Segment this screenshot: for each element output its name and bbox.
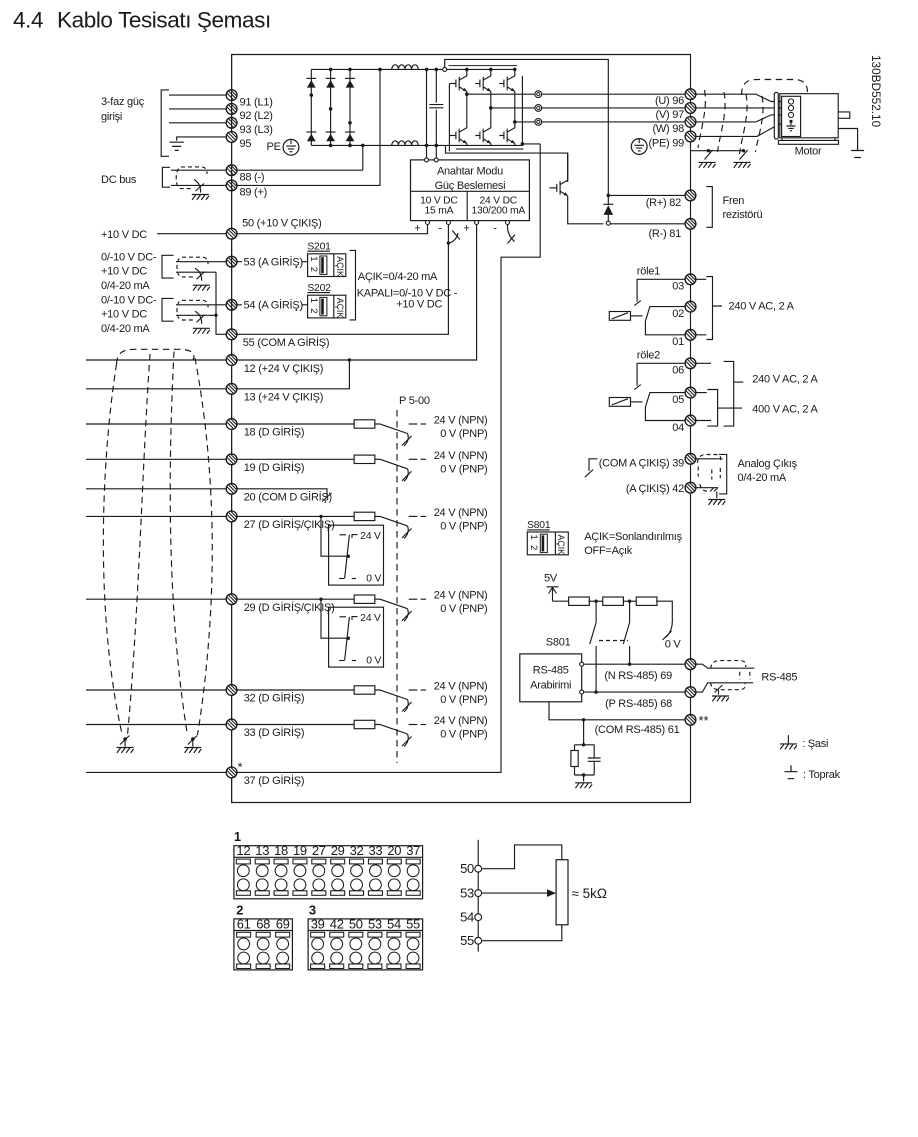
terminal 50 [226, 228, 237, 239]
shield analog input 53 [177, 257, 200, 277]
svg-text:: Şasi: : Şasi [802, 738, 828, 750]
RS-485 cable shield [711, 661, 746, 669]
terminal 92 [226, 104, 237, 115]
bracket DC bus [162, 167, 170, 187]
wire DC+ to terminal 89 [237, 69, 380, 185]
svg-text:53: 53 [460, 886, 474, 901]
svg-text:AÇIK: AÇIK [335, 256, 345, 277]
svg-text:1: 1 [234, 829, 241, 844]
svg-text:18: 18 [274, 843, 288, 858]
resistor input 33 [354, 720, 375, 728]
svg-text:50: 50 [460, 861, 474, 876]
potentiometer wiring sketch [477, 840, 479, 952]
wire P RS-485 68 [584, 691, 686, 693]
wire SMPS 10V- to 55 [237, 225, 449, 335]
svg-text:89 (+): 89 (+) [240, 187, 268, 199]
wire 50 left [157, 233, 226, 235]
terminal 39 [685, 453, 696, 464]
svg-text:3: 3 [309, 902, 316, 917]
shield drain DC bus [194, 180, 201, 193]
SMPS Anahtar Modu Guc Beslemesi [411, 160, 530, 221]
svg-text:0/4-20 mA: 0/4-20 mA [738, 472, 787, 484]
motor [774, 92, 778, 139]
svg-text:05: 05 [672, 394, 684, 406]
output connector phase 3 [515, 121, 535, 123]
svg-text:2: 2 [236, 902, 243, 917]
resistor input 29 [354, 595, 375, 603]
terminal 99 [685, 131, 696, 142]
terminal 93 [226, 117, 237, 128]
svg-text:0 V (PNP): 0 V (PNP) [440, 520, 487, 532]
shield drain 54 [195, 311, 202, 324]
pot node 53 [475, 890, 482, 897]
chassis ground motor cable 1 [699, 162, 716, 167]
svg-text:(R-) 81: (R-) 81 [649, 228, 682, 240]
inductor DC+ [350, 68, 392, 70]
svg-text:Kablo Tesisatı Şeması: Kablo Tesisatı Şeması [57, 8, 271, 33]
svg-text:54: 54 [387, 916, 401, 931]
svg-text:2: 2 [308, 308, 319, 313]
shield DC bus cable [176, 167, 199, 189]
relay coil röle2 [609, 398, 630, 407]
output connector phase 2 [491, 107, 535, 109]
terminal 32 [226, 685, 237, 696]
bracket 3-phase input [161, 90, 169, 156]
relay coil röle1 [609, 312, 630, 321]
svg-text:rezistörü: rezistörü [723, 209, 763, 221]
wire COM RS-485 61 [549, 702, 685, 720]
analog out wires [696, 458, 723, 460]
switch NPN/PNP 33 [375, 725, 408, 735]
svg-text:37 (D GİRİŞ): 37 (D GİRİŞ) [244, 774, 305, 787]
svg-text:0/4-20 mA: 0/4-20 mA [101, 323, 150, 335]
wire 19 to resistor [237, 458, 354, 460]
svg-text:(U) 96: (U) 96 [655, 95, 684, 107]
bundle shield drains [123, 737, 127, 741]
svg-text:P 5-00: P 5-00 [399, 395, 430, 407]
wire N RS-485 69 [584, 663, 686, 665]
resistor input 19 [354, 455, 375, 463]
wire 33 left [86, 724, 226, 726]
wire 12 left [86, 359, 226, 361]
halo labels 53/54 [242, 255, 303, 269]
wire 54 pair bottom [176, 314, 216, 316]
chassis ground DC bus shield [192, 195, 209, 200]
switch 0V [666, 619, 673, 638]
svg-text:(P RS-485) 68: (P RS-485) 68 [605, 698, 672, 710]
svg-text:55: 55 [406, 916, 420, 931]
motor wire W [696, 115, 787, 122]
terminator resistor 1 [553, 600, 570, 602]
chassis ground analog out [708, 500, 725, 505]
svg-text:S801: S801 [546, 636, 571, 648]
wire 29 left [86, 598, 226, 600]
svg-text:39: 39 [311, 916, 325, 931]
wire 32 to resistor [237, 689, 354, 691]
svg-text:24 V (NPN): 24 V (NPN) [434, 590, 488, 602]
bracket analog input 53 [162, 255, 174, 278]
hook COM A CIKIS [589, 459, 598, 471]
svg-text:KAPALI=0/-10 V DC -: KAPALI=0/-10 V DC - [357, 287, 458, 299]
IGBT module bus bars [449, 65, 518, 67]
svg-text:0 V (PNP): 0 V (PNP) [440, 603, 487, 615]
wire 18 left [86, 423, 226, 425]
svg-text:0 V (PNP): 0 V (PNP) [440, 428, 487, 440]
svg-text:(PE) 99: (PE) 99 [648, 138, 684, 150]
svg-text:0 V (PNP): 0 V (PNP) [440, 729, 487, 741]
shield drain 53 [195, 268, 202, 281]
svg-text:DC bus: DC bus [101, 174, 137, 186]
shield analog input 54 [177, 300, 200, 320]
svg-text:1: 1 [528, 535, 539, 540]
svg-text:18 (D GİRİŞ): 18 (D GİRİŞ) [244, 426, 305, 439]
svg-text:24 V (NPN): 24 V (NPN) [434, 415, 488, 427]
svg-text:0/4-20 mA: 0/4-20 mA [101, 280, 150, 292]
motor cable shield dome [742, 80, 808, 96]
svg-text:20 (COM D GİRİŞ): 20 (COM D GİRİŞ) [244, 491, 332, 504]
svg-text:32: 32 [350, 843, 364, 858]
svg-text:(V) 97: (V) 97 [656, 109, 685, 121]
svg-text:24 V (NPN): 24 V (NPN) [434, 681, 488, 693]
terminal 42 [685, 482, 696, 493]
terminal 68 [685, 687, 696, 698]
rectifier leg 3 [349, 69, 351, 145]
wire 95 to earth [177, 137, 227, 141]
drive enclosure box [232, 55, 691, 803]
terminator resistor 3 [623, 600, 638, 602]
terminal 13 [226, 383, 237, 394]
digital io select box at 516.4 [319, 515, 322, 518]
PE shield bus [691, 150, 744, 152]
svg-text:15 mA: 15 mA [425, 206, 454, 217]
RS-485 cable wires [696, 664, 755, 668]
terminal 89 [226, 180, 237, 191]
terminal 88 [226, 165, 237, 176]
terminal 91 [226, 90, 237, 101]
wire 19 left [86, 458, 226, 460]
svg-text:0 V: 0 V [366, 574, 381, 585]
RS-485 shield drain [718, 690, 720, 695]
wire 33 to resistor [237, 724, 354, 726]
svg-text:+: + [463, 223, 469, 235]
svg-text:53 (A GİRİŞ): 53 (A GİRİŞ) [244, 256, 303, 269]
svg-text:42: 42 [330, 916, 344, 931]
terminal 37 [226, 767, 237, 778]
svg-text:01: 01 [672, 336, 684, 348]
shielded control cable bundle [117, 349, 194, 364]
switch NPN/PNP 19 [375, 459, 408, 469]
pot wire 55 [482, 925, 562, 941]
svg-text:24 V: 24 V [360, 613, 381, 624]
DC link capacitor [427, 69, 437, 157]
svg-text:24 V: 24 V [360, 531, 381, 542]
svg-text:55 (COM A GİRİŞ): 55 (COM A GİRİŞ) [243, 336, 329, 349]
svg-text:0/-10 V DC-: 0/-10 V DC- [101, 294, 157, 306]
svg-text:0 V: 0 V [366, 656, 381, 667]
IGBT module right bracket [521, 76, 523, 144]
svg-text:92 (L2): 92 (L2) [240, 110, 273, 122]
svg-text:24 V (NPN): 24 V (NPN) [434, 507, 488, 519]
svg-text:Fren: Fren [723, 195, 745, 207]
svg-text:Anahtar Modu: Anahtar Modu [437, 166, 503, 178]
terminal 54 [226, 299, 237, 310]
terminal column segment 53-55 [231, 256, 233, 803]
terminal 95 [226, 132, 237, 143]
svg-text:37: 37 [406, 843, 420, 858]
legend chassis [787, 735, 789, 743]
svg-text:2: 2 [308, 267, 319, 272]
wire L91 [169, 94, 226, 96]
analog out shield dashes [698, 455, 721, 464]
brake IGBT [557, 180, 568, 196]
motor wire PE [696, 121, 787, 136]
pot node 50 [475, 865, 482, 872]
wire 53 to S201 [237, 261, 308, 263]
svg-text:69: 69 [276, 916, 290, 931]
wire 29 to resistor [237, 598, 354, 600]
wire 88 [171, 169, 226, 171]
resistor input 18 [354, 420, 375, 428]
svg-text:32 (D GİRİŞ): 32 (D GİRİŞ) [244, 692, 305, 705]
svg-text:13 (+24 V ÇIKIŞ): 13 (+24 V ÇIKIŞ) [244, 392, 323, 404]
svg-text:**: ** [699, 713, 709, 728]
svg-text:-: - [438, 223, 442, 235]
wire DC- to terminal 88 [361, 144, 365, 148]
wire 54 to S202 [237, 304, 308, 306]
pot wire 53 arrow [482, 892, 548, 894]
IGBT top phase 2 [490, 69, 492, 76]
wire 20 hook [237, 489, 327, 498]
svg-text:33: 33 [368, 843, 382, 858]
terminal 53 [226, 256, 237, 267]
terminal 05 [685, 387, 696, 398]
wire 37 left [86, 771, 226, 773]
wire 13 left [86, 388, 226, 390]
svg-text:54 (A GİRİŞ): 54 (A GİRİŞ) [244, 299, 303, 312]
IGBT top phase 3 [514, 69, 516, 76]
wire L93 [169, 122, 226, 124]
svg-text:02: 02 [672, 308, 684, 320]
motor base [779, 138, 839, 145]
resistor input 27 [354, 512, 375, 520]
terminal 69 [685, 659, 696, 670]
bracket brake resistor [706, 187, 712, 228]
svg-text:29: 29 [331, 843, 345, 858]
svg-text:130/200 mA: 130/200 mA [472, 206, 526, 217]
svg-text:20: 20 [387, 843, 401, 858]
svg-text:+10 V DC: +10 V DC [101, 265, 147, 277]
svg-text:röle1: röle1 [637, 266, 660, 278]
RC filter to chassis [582, 718, 585, 721]
motor shaft [838, 112, 850, 118]
terminal 18 [226, 419, 237, 430]
svg-text:RS-485: RS-485 [533, 664, 569, 676]
wire 37 to internal supply [237, 144, 540, 773]
svg-text:19: 19 [293, 843, 307, 858]
wire 53 pair top [176, 261, 226, 263]
wire 18 to resistor [237, 423, 354, 425]
S801 gang dashes [599, 640, 628, 642]
svg-text:Arabirimi: Arabirimi [530, 679, 571, 691]
svg-text:(A ÇIKIŞ) 42: (A ÇIKIŞ) 42 [626, 483, 684, 495]
output connector phase 1 [467, 93, 535, 95]
svg-text:33 (D GİRİŞ): 33 (D GİRİŞ) [244, 726, 305, 739]
svg-text:(R+) 82: (R+) 82 [646, 197, 681, 209]
motor earth [838, 129, 857, 145]
svg-text:50: 50 [349, 916, 363, 931]
svg-text:PE: PE [267, 141, 281, 153]
svg-text:06: 06 [672, 365, 684, 377]
svg-text:13: 13 [255, 843, 269, 858]
svg-text:53: 53 [368, 916, 382, 931]
terminal 03 [685, 274, 696, 285]
wire 12 to SMPS [237, 224, 477, 360]
pot resistor [556, 860, 568, 925]
wire 32 left [86, 689, 226, 691]
bracket analog out [719, 454, 727, 494]
pot wire 50 [482, 845, 562, 869]
svg-text:OFF=Açık: OFF=Açık [584, 545, 633, 557]
svg-text:girişi: girişi [101, 111, 122, 123]
svg-text:24 V (NPN): 24 V (NPN) [434, 450, 488, 462]
switch NPN/PNP 32 [375, 690, 408, 700]
svg-text:+10 V DC: +10 V DC [101, 309, 147, 321]
wire to terminal 81 [610, 223, 685, 225]
pot node 54 [475, 914, 482, 921]
svg-text:54: 54 [460, 910, 474, 925]
wire SMPS 10V+ to 50 [237, 225, 428, 234]
terminator resistor 2 [588, 600, 603, 602]
node brake DC+ tap [443, 67, 447, 71]
svg-text:AÇIK: AÇIK [556, 535, 566, 556]
svg-text:95: 95 [240, 138, 252, 150]
switch NPN/PNP 27 [375, 516, 408, 526]
terminal 02 [685, 301, 696, 312]
svg-text:55: 55 [460, 933, 474, 948]
IGBT bottom phase 1 [466, 94, 468, 128]
svg-text:Analog Çıkış: Analog Çıkış [738, 458, 798, 470]
chassis ground bundle left [117, 748, 134, 753]
wire 54 pair top [176, 304, 226, 306]
svg-text:4.4: 4.4 [13, 8, 43, 33]
wire 13 join 12 [237, 360, 350, 389]
svg-text:(W) 98: (W) 98 [653, 123, 685, 135]
bracket S201/S202 [350, 250, 356, 320]
svg-text:130BD552.10: 130BD552.10 [869, 55, 883, 128]
chassis ground 54 shield [193, 328, 210, 333]
terminal 33 [226, 719, 237, 730]
terminal 98 [685, 117, 696, 128]
svg-text:61: 61 [237, 916, 251, 931]
svg-text:12: 12 [236, 843, 250, 858]
S801 switch 1 [595, 601, 597, 692]
svg-text:0 V (PNP): 0 V (PNP) [440, 463, 487, 475]
svg-text:400 V AC, 2 A: 400 V AC, 2 A [752, 403, 818, 415]
svg-text:24 V (NPN): 24 V (NPN) [434, 715, 488, 727]
terminal 01 [685, 329, 696, 340]
svg-text:: Toprak: : Toprak [803, 769, 841, 781]
svg-text:röle2: röle2 [637, 350, 660, 362]
svg-text:0 V: 0 V [665, 639, 682, 651]
chassis ground motor cable 2 [734, 162, 751, 167]
svg-text:04: 04 [672, 422, 684, 434]
svg-text:50 (+10 V ÇIKIŞ): 50 (+10 V ÇIKIŞ) [242, 218, 321, 230]
svg-text:27: 27 [312, 843, 326, 858]
svg-text:93 (L3): 93 (L3) [240, 124, 273, 136]
svg-text:0/-10 V DC-: 0/-10 V DC- [101, 251, 157, 263]
svg-text:RS-485: RS-485 [761, 671, 797, 683]
terminal 12 [226, 355, 237, 366]
wire common of pairs to 55 [216, 272, 226, 334]
PE earth circle right [631, 139, 647, 155]
wire 53 pair bottom [176, 271, 216, 273]
resistor input 32 [354, 686, 375, 694]
svg-text:+10 V DC: +10 V DC [101, 229, 147, 241]
switch NPN/PNP 18 [375, 424, 408, 434]
chassis ground 53 shield [193, 285, 210, 290]
bracket role1 [696, 279, 707, 335]
terminal 29 [226, 594, 237, 605]
IGBT bottom phase 3 [514, 122, 516, 128]
svg-text:(COM RS-485) 61: (COM RS-485) 61 [595, 724, 680, 736]
motor wire U [696, 94, 787, 101]
svg-text:AÇIK: AÇIK [335, 298, 345, 319]
terminal column segment 88-50 [231, 165, 233, 256]
terminal 82 [685, 190, 696, 201]
svg-text:0 V (PNP): 0 V (PNP) [440, 694, 487, 706]
terminal 61 [685, 714, 696, 725]
S801 switch 2 [629, 601, 631, 664]
rectifier bridge [311, 68, 350, 70]
svg-text:12 (+24 V ÇIKIŞ): 12 (+24 V ÇIKIŞ) [244, 363, 323, 375]
SMPS output nodes [426, 221, 430, 225]
rectifier leg 2 [330, 69, 332, 145]
svg-text:(N RS-485) 69: (N RS-485) 69 [604, 670, 672, 682]
svg-text:+: + [414, 223, 420, 235]
svg-text:88 (-): 88 (-) [240, 172, 265, 184]
wire 27 to resistor [237, 515, 354, 517]
wire 27 left [86, 515, 226, 517]
terminal 20 [226, 483, 237, 494]
brake diode [607, 194, 611, 198]
terminal 55 [226, 329, 237, 340]
rectifier leg 1 [310, 69, 312, 145]
svg-text:AÇIK=Sonlandırılmış: AÇIK=Sonlandırılmış [584, 531, 682, 543]
legend earth [785, 765, 798, 779]
wire L92 [169, 108, 226, 110]
ground earth at line 95 [170, 142, 184, 150]
terminal 06 [685, 358, 696, 369]
svg-text:3-faz güç: 3-faz güç [101, 96, 145, 108]
svg-text:91 (L1): 91 (L1) [240, 96, 273, 108]
wire DC- to brake IGBT [446, 145, 568, 182]
svg-text:19 (D GİRİŞ): 19 (D GİRİŞ) [244, 461, 305, 474]
svg-text:2: 2 [528, 545, 539, 550]
svg-text:03: 03 [672, 281, 684, 293]
svg-text:Güç Beslemesi: Güç Beslemesi [435, 180, 506, 192]
motor cable shield curves [698, 90, 705, 148]
node DC- to chopper branch [521, 142, 525, 146]
terminal 96 [685, 89, 696, 100]
terminal 81 [685, 218, 696, 229]
svg-text:-: - [493, 223, 497, 235]
svg-text:5V: 5V [544, 573, 558, 585]
svg-text:≈ 5kΩ: ≈ 5kΩ [572, 886, 608, 901]
svg-text:1: 1 [308, 298, 319, 303]
svg-text:Motor: Motor [795, 145, 822, 157]
switch at 24V- [508, 225, 515, 242]
svg-text:1: 1 [308, 256, 319, 261]
